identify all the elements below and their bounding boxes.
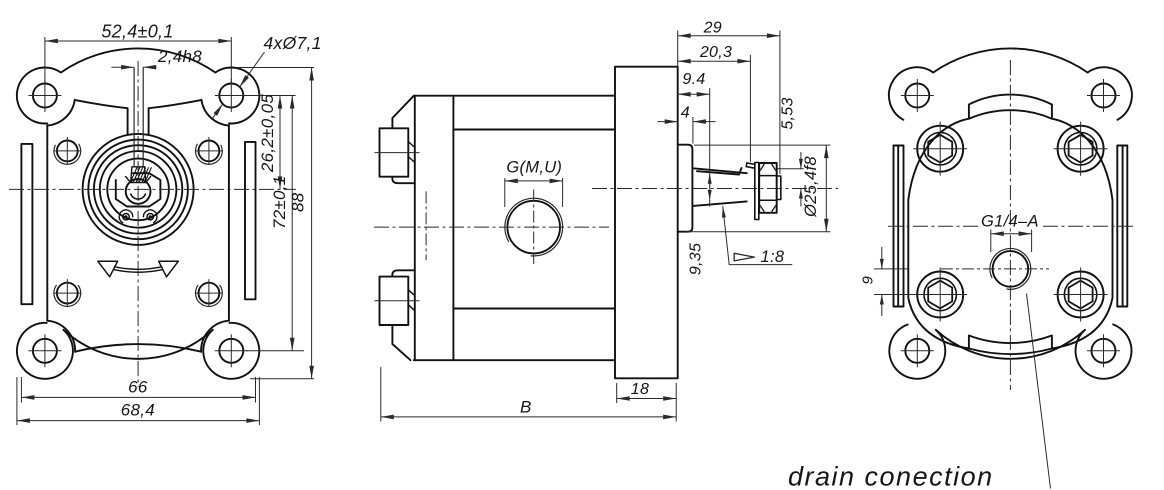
dimension 66	[20, 377, 22, 403]
front view: key cross-section hatched	[131, 167, 152, 183]
side view: lower boss thread chamfer marks	[408, 290, 415, 296]
dimension 88	[236, 67, 314, 69]
svg-text:29: 29	[703, 20, 722, 37]
dimension 72±0,1	[246, 350, 304, 352]
rear view: bottom-right lobe arc	[1076, 325, 1132, 379]
dimension 18	[675, 383, 677, 422]
rear view: bottom-left lobe arc	[889, 325, 945, 379]
svg-text:4xØ7,1: 4xØ7,1	[264, 33, 322, 53]
side view: cover top chamfer	[392, 96, 414, 129]
svg-text:G(M,U): G(M,U)	[506, 158, 562, 176]
side view: flange plate	[615, 67, 678, 379]
side view: cover/housing boundary	[452, 96, 454, 361]
front view: stem left line around keyway	[127, 108, 129, 135]
dimension 26,2±0,05	[238, 95, 296, 97]
side view: housing outline	[414, 95, 615, 97]
front view: plate contour top edge left	[75, 100, 128, 108]
rear view: left housing lines	[893, 146, 895, 307]
side view: shaft taper top	[693, 168, 747, 173]
front view: plate contour left edge	[46, 125, 48, 321]
rear view: right housing lines	[1116, 146, 1118, 307]
side view: G port vertical centerline	[533, 190, 535, 265]
dimension 4	[692, 117, 694, 144]
svg-text:9: 9	[859, 276, 876, 285]
front view: rotation double arrow	[98, 261, 118, 277]
svg-text:4: 4	[681, 104, 690, 121]
rear view: vertical centerline	[1009, 60, 1011, 390]
rear view: top-left lobe arc	[889, 67, 933, 120]
front view: boss concentric circles	[83, 134, 194, 245]
dimension 5,53	[778, 168, 804, 170]
side view: shaft axis centerline	[592, 188, 838, 190]
front view: lobe holes	[33, 84, 57, 108]
side view: cover center cross vertical	[425, 191, 427, 260]
front view: shaft inner arc	[131, 194, 146, 199]
svg-text:9.4: 9.4	[682, 71, 705, 88]
svg-text:26,2±0,05: 26,2±0,05	[258, 94, 277, 173]
front view: bottom-left lobe arc	[17, 323, 73, 379]
side view: shaft thread stub	[777, 176, 781, 200]
side view: gear chamber top line	[453, 129, 615, 131]
svg-text:68,4: 68,4	[121, 401, 155, 420]
dimension 29	[677, 31, 679, 67]
rear view: socket head bolts	[917, 126, 963, 172]
front view: small mounting holes with register arcs	[57, 141, 78, 162]
svg-text:G1/4–A: G1/4–A	[981, 212, 1039, 230]
rear view: horizontal centerline left	[888, 225, 979, 227]
front view: plate contour top edge right	[149, 100, 202, 108]
side view: port axis centerline	[374, 226, 609, 228]
front view: rivet hook arcs	[119, 210, 133, 223]
front view: keyway wings hatched	[126, 177, 151, 183]
svg-text:5,53: 5,53	[780, 97, 797, 129]
drain leader line	[1027, 294, 1051, 489]
rear view: cover right side	[1052, 119, 1113, 349]
svg-text:2,4h8: 2,4h8	[157, 47, 202, 66]
front view: plate scallop around top-right lobe	[201, 100, 229, 126]
front view: plate scallop around bottom-right lobe	[201, 321, 229, 352]
dimension 9	[874, 268, 908, 270]
svg-text:9,35: 9,35	[688, 243, 705, 275]
front view: shaft circle	[126, 179, 151, 204]
rear view: cover left side	[908, 119, 969, 349]
svg-text:1:8: 1:8	[761, 248, 785, 266]
svg-text:52,4±0,1: 52,4±0,1	[101, 22, 173, 42]
front view: flange outline top edge arc	[61, 48, 215, 72]
svg-text:66: 66	[128, 378, 148, 397]
rear view: drain port circle	[993, 251, 1029, 287]
side view: gear chamber bottom line	[453, 308, 615, 310]
side view: shaft taper bottom	[693, 201, 747, 206]
rear view: flange top edge arc	[933, 48, 1087, 72]
front view: keyway slot lines	[133, 67, 135, 167]
side view: washer bent tab	[746, 163, 755, 168]
side view: cover bottom chamfer	[392, 325, 410, 360]
svg-text:20,3: 20,3	[699, 44, 732, 61]
front view: plate contour bottom edge	[76, 344, 201, 352]
side view: G port thread circle	[505, 198, 563, 256]
dimension Ø25,4f8	[694, 144, 830, 146]
rear view: top-right lobe arc	[1088, 67, 1132, 120]
front view: horizontal centerline	[9, 188, 296, 190]
front view: top-right lobe arc	[215, 68, 259, 124]
front view: plate scallop around top-left lobe	[47, 100, 75, 126]
side view: step above lower boss	[392, 270, 414, 276]
svg-text:72±0,1: 72±0,1	[270, 175, 289, 229]
side view: step below upper boss	[392, 177, 414, 184]
rear view: flange bottom edge arc	[936, 330, 1085, 359]
svg-text:18: 18	[631, 381, 649, 398]
dimension 20,3	[749, 55, 751, 162]
svg-text:88: 88	[288, 192, 307, 212]
front view: bottom-right lobe arc	[203, 323, 259, 379]
side view: upper port boss	[380, 128, 409, 176]
rear view: drain port horizontal centerline	[941, 268, 1049, 270]
front view: left side tab of housing	[21, 144, 32, 304]
front view: retainer rivets	[123, 214, 129, 220]
side view: upper boss thread chamfer marks	[408, 142, 415, 148]
rear view: lobe holes	[905, 84, 929, 108]
front view: plate contour right edge	[228, 125, 230, 321]
rear view: drain port thread arc	[990, 249, 1031, 290]
dimension B	[380, 367, 382, 422]
rear view: cover outline	[969, 95, 1052, 105]
side view: cover face line	[414, 97, 416, 361]
rear view: horizontal centerline right	[1043, 225, 1133, 227]
side view: washer strip	[755, 163, 759, 220]
side view: upper boss centerline	[375, 152, 420, 154]
front view: top-left lobe arc	[17, 68, 61, 124]
front view: seal retainer octagon	[116, 173, 161, 206]
side view: shaft hub	[678, 145, 693, 232]
front view: plate scallop around bottom-left lobe	[47, 321, 75, 352]
dimension 2,4h8	[111, 66, 134, 68]
dimension 9.4	[709, 88, 711, 207]
side view: G port circle	[507, 201, 560, 254]
taper gauge arrows	[709, 179, 711, 185]
svg-text:B: B	[520, 397, 532, 416]
front view: vertical centerline	[137, 61, 139, 387]
front view: stem right line around keyway	[148, 108, 150, 135]
side view: shaft keyway line	[697, 168, 742, 175]
side view: nut body	[759, 163, 777, 213]
side view: lower boss centerline	[375, 300, 420, 302]
front view: right side tab of housing	[245, 142, 256, 299]
dimension 68,4	[16, 377, 18, 425]
side view: lower port boss	[380, 277, 409, 325]
dimension 52,4±0,1	[44, 37, 46, 84]
side view: nut chamfer arcs	[759, 163, 764, 171]
taper 1:8 flag with leader	[729, 264, 792, 266]
svg-text:(British standard pipe thread): (British standard pipe thread)	[795, 486, 1147, 490]
front view: flange outline bottom edge arc	[64, 330, 213, 359]
side view: nut facet lines	[759, 175, 777, 177]
svg-text:Ø25,4f8: Ø25,4f8	[802, 156, 820, 218]
